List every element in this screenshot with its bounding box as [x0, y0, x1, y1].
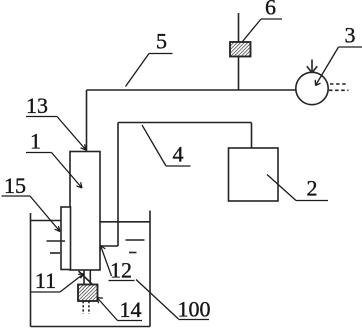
- leader 100: [136, 280, 179, 320]
- water surface left: [31, 220, 62, 222]
- water mark left upper: [47, 240, 66, 242]
- leader 14: [97, 298, 118, 321]
- leader 3: [315, 47, 338, 86]
- tank 100 bottom: [31, 326, 151, 328]
- wire: pipe 4 horizontal: [118, 122, 252, 124]
- svg-text:6: 6: [265, 0, 276, 20]
- svg-text:15: 15: [4, 173, 26, 198]
- water surface right: [101, 221, 151, 223]
- label 1: [26, 129, 52, 154]
- wire: main pipe 5 horizontal: [87, 89, 297, 91]
- svg-text:11: 11: [35, 268, 56, 293]
- pump U3 circle: [296, 72, 328, 104]
- drain stubs below heater: [83, 301, 89, 314]
- label 14: [118, 297, 143, 322]
- svg-text:14: 14: [120, 297, 142, 322]
- leader 4: [142, 125, 166, 166]
- svg-text:1: 1: [30, 129, 41, 154]
- svg-text:5: 5: [156, 29, 167, 54]
- leader 11: [60, 274, 84, 293]
- wire: pump outlet dashes: [329, 84, 349, 90]
- leader 1: [52, 153, 83, 189]
- water mark left lower: [50, 252, 60, 254]
- heater 14 hatched box: [78, 285, 98, 302]
- label 100: [178, 297, 211, 322]
- svg-text:2: 2: [307, 176, 318, 201]
- wire: riser from main pipe down to column top: [86, 90, 88, 152]
- wire: stub above pump: [307, 60, 317, 73]
- label 2: [296, 176, 328, 201]
- leader 2: [267, 175, 296, 201]
- label 5: [149, 29, 173, 54]
- wire: pipe 4 left leg down into tank: [117, 123, 119, 247]
- leader 13: [57, 117, 86, 151]
- tank 100 right wall: [149, 211, 151, 327]
- sleeve 15: [61, 207, 71, 270]
- svg-text:3: 3: [345, 23, 356, 48]
- leader 5: [126, 54, 150, 87]
- wire: vertical line through valve 6: [238, 13, 240, 90]
- valve 6: [230, 42, 251, 57]
- leader 12: [100, 246, 112, 277]
- column 1 body: [70, 152, 100, 271]
- label 11: [31, 268, 60, 293]
- leader 6: [243, 19, 262, 42]
- label 6: [261, 0, 282, 20]
- tank 100 left wall: [30, 213, 32, 327]
- label 3: [339, 23, 362, 48]
- leader 15: [30, 196, 60, 232]
- valve 11 neck below column: [79, 270, 93, 285]
- label 4: [166, 142, 191, 167]
- label 15: [2, 173, 31, 198]
- label 12: [109, 258, 135, 283]
- svg-text:100: 100: [178, 297, 211, 322]
- svg-text:4: 4: [173, 142, 184, 167]
- svg-text:13: 13: [26, 93, 48, 118]
- svg-text:12: 12: [110, 258, 132, 283]
- water mark right upper: [126, 239, 145, 241]
- wire: pipe 4 right leg into vessel 2: [251, 123, 253, 164]
- label 13: [26, 93, 57, 118]
- water mark right lower: [129, 252, 137, 254]
- wire: inlet bend into column: [101, 245, 119, 247]
- vessel 2: [229, 148, 279, 201]
